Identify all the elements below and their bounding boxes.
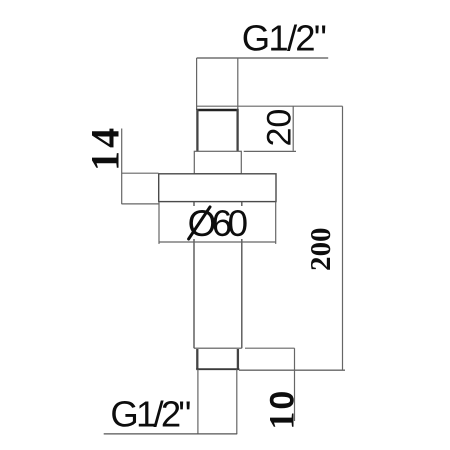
extension line bottom thread top (10 dim) [245, 347, 295, 349]
svg-text:G1/2": G1/2" [242, 18, 327, 59]
wire: bottom neck right [236, 369, 238, 434]
label line bottom (G1/2" leader) [104, 433, 238, 435]
extension line top (to 20 and 200 dims) [197, 105, 343, 107]
svg-text:20: 20 [260, 109, 298, 147]
extension line below thread (20 dim bottom) [244, 150, 296, 152]
svg-text:G1/2": G1/2" [110, 393, 191, 434]
dimension line 20 [292, 106, 294, 151]
diameter slash of D60 [189, 207, 210, 239]
svg-text:10: 10 [261, 391, 301, 430]
pipe bottom step line [194, 347, 242, 349]
svg-text:200: 200 [305, 228, 337, 272]
connector block between thread and flange [194, 151, 241, 174]
dimension line 14 [121, 129, 123, 205]
wire: bottom neck left [197, 369, 199, 434]
extension line pipe bottom (200/10 dims) [239, 369, 345, 371]
flange (ceiling rose) [159, 174, 276, 202]
threaded section bottom (G1/2 male thread) [196, 349, 239, 369]
pipe body right wall [241, 202, 243, 349]
svg-text:O60: O60 [188, 203, 249, 244]
extension line flange bottom (14 dim) [122, 203, 159, 205]
extension line flange right (D60 dim) [275, 202, 277, 244]
extension line flange left (D60 dim) [158, 202, 160, 244]
label line top (G1/2" leader) [197, 57, 329, 59]
threaded section top (G1/2 male thread) [197, 109, 239, 151]
pipe body left wall [193, 202, 195, 349]
extension line flange top (14 dim) [122, 172, 159, 174]
dimension line 10 [294, 348, 296, 421]
dimension line 200 [342, 106, 344, 370]
halo for D60 text [186, 206, 250, 239]
wire: neck left extension [196, 58, 198, 110]
dimension line D60 [159, 241, 276, 243]
wire: neck right extension [237, 58, 239, 110]
